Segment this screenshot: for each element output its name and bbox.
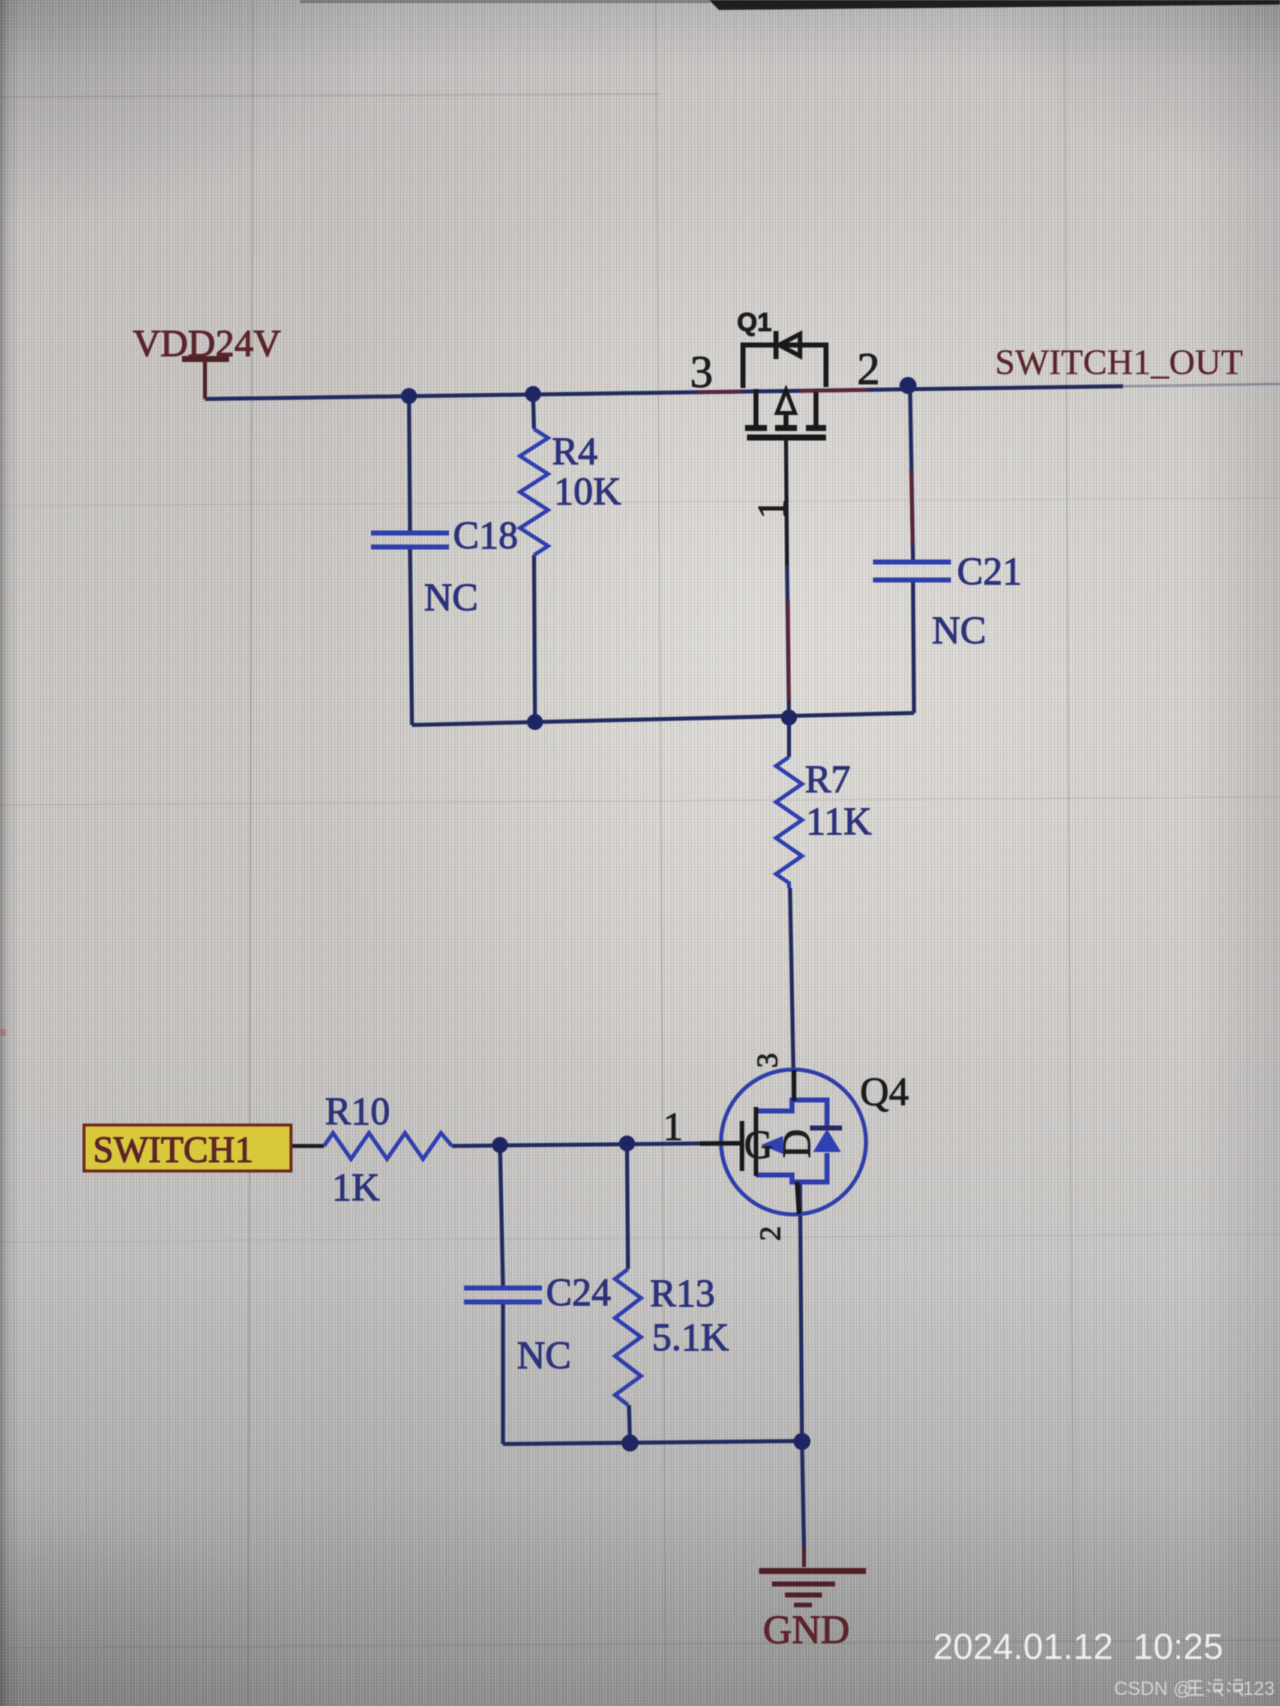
svg-text:11K: 11K xyxy=(806,800,872,843)
svg-text:2024.01.12 10:25: 2024.01.12 10:25 xyxy=(933,1626,1223,1667)
svg-text:D: D xyxy=(774,1129,819,1158)
svg-text:C24: C24 xyxy=(546,1271,611,1314)
svg-text:Q4: Q4 xyxy=(860,1069,909,1114)
svg-text:3: 3 xyxy=(690,346,713,397)
svg-text:5.1K: 5.1K xyxy=(652,1316,729,1359)
svg-text:CSDN @: CSDN @ xyxy=(1114,1679,1192,1700)
svg-text:Q1: Q1 xyxy=(737,307,772,337)
svg-text:123: 123 xyxy=(1243,1679,1275,1700)
svg-text:NC: NC xyxy=(932,609,986,652)
svg-text:1: 1 xyxy=(663,1104,683,1149)
svg-text:C21: C21 xyxy=(957,550,1022,593)
svg-text:R4: R4 xyxy=(552,430,598,473)
svg-text:3: 3 xyxy=(751,1053,784,1068)
svg-text:R7: R7 xyxy=(805,758,851,801)
svg-text:SWITCH1: SWITCH1 xyxy=(93,1130,253,1171)
svg-text:1K: 1K xyxy=(332,1166,380,1209)
svg-text:NC: NC xyxy=(517,1334,571,1377)
svg-text:NC: NC xyxy=(424,576,478,619)
svg-text:2: 2 xyxy=(857,343,880,394)
svg-text:SWITCH1_OUT: SWITCH1_OUT xyxy=(995,342,1243,382)
svg-text:1: 1 xyxy=(749,499,794,519)
svg-text:R10: R10 xyxy=(325,1090,390,1133)
svg-text:GND: GND xyxy=(763,1607,850,1652)
svg-text:R13: R13 xyxy=(650,1272,715,1315)
svg-text:G: G xyxy=(744,1122,773,1167)
svg-text:VDD24V: VDD24V xyxy=(133,323,281,365)
svg-text:10K: 10K xyxy=(554,470,621,513)
svg-text:C18: C18 xyxy=(453,514,518,557)
svg-text:2: 2 xyxy=(754,1226,787,1241)
